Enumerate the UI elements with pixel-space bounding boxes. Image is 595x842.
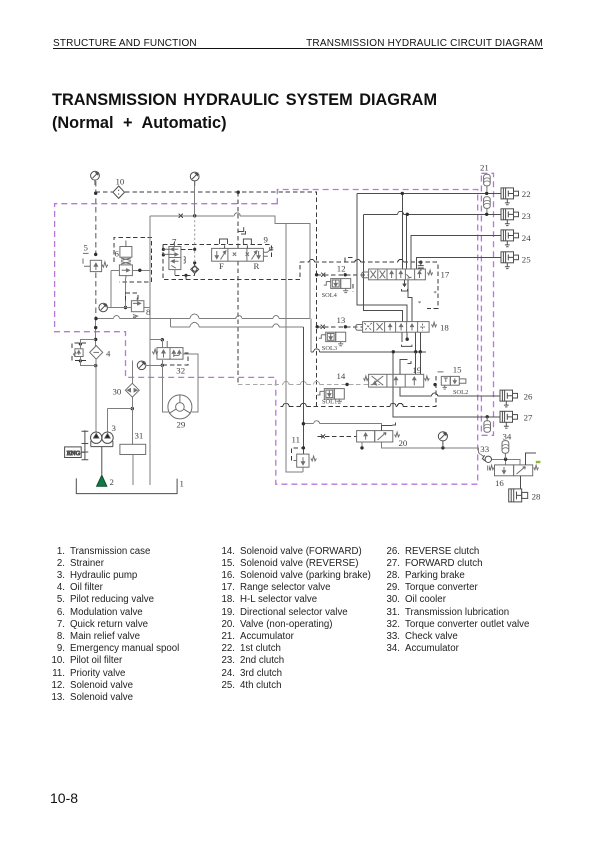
gauge G5 [438,432,447,448]
wire: link into pilot box [186,263,195,276]
svg-text:2: 2 [110,477,114,487]
pilot enclosure purple dashed loop [55,190,478,485]
legend column 1 [47,546,179,705]
wire: dashed return y406.3 [281,373,436,406]
legend column 3 [382,546,529,656]
svg-text:10: 10 [116,176,125,186]
wire: clutch27 run [393,352,500,417]
svg-text:20: 20 [399,438,408,448]
svg-text:6: 6 [115,248,120,258]
drain bracket under valve18 [402,345,412,347]
valve9 centering springs [220,239,252,248]
gauge G1 top-left [91,171,100,185]
svg-text:SOL2: SOL2 [453,389,468,396]
wire: gauge G3 to valve 8 [108,307,132,309]
svg-text:23: 23 [522,211,531,221]
wire: clutch25 run [417,257,501,269]
svg-text:SOL3: SOL3 [322,345,337,352]
wire: valve11 bottom loop [302,467,304,472]
check valve 33 [482,455,491,462]
valve20 pilot bracket [381,422,395,430]
parking brake 28 [509,489,528,502]
transmission lubrication 31 [120,444,146,454]
transmission case 1 [76,478,177,493]
svg-text:15: 15 [453,365,462,375]
wire: SOL3 header y351.8 [311,351,426,353]
quick return valve 7 [163,242,185,276]
REVERSE clutch 26 [500,390,518,407]
wire: SOL4 output dashed y274.8 [317,274,369,276]
wire: valve6 to relief line [126,216,151,308]
title line 2 [52,114,227,133]
wire: valve16 to brake [520,476,522,489]
svg-text:R: R [254,261,260,271]
svg-text:19: 19 [413,365,422,375]
torque converter 29 [168,395,192,419]
svg-text:7: 7 [172,237,177,247]
bumps dashed return [283,403,289,406]
svg-text:1: 1 [180,479,184,489]
svg-text:16: 16 [495,478,504,488]
wire: return riser x286 [286,224,303,472]
svg-text:24: 24 [522,233,531,243]
svg-text:18: 18 [440,323,449,333]
valve18 left cap link [356,325,363,331]
wire: bypass loop [80,339,95,365]
svg-text:33: 33 [480,444,489,454]
wire: SOL3 output dashed y326.8 [317,326,363,328]
orifice below valve17 pilot tap [418,262,424,271]
gauge G3 relief [99,303,108,312]
svg-text:F: F [219,261,224,271]
dashed box around bypass [72,343,86,360]
torque converter outlet valve 32 [152,341,183,359]
range selector valve 17 [369,269,433,280]
emergency manual spool 9 [212,247,273,261]
oil filter 4 [90,346,103,360]
title line 1 [52,91,437,110]
wire: pilot dashed box around valves 7,9 [163,245,300,280]
bumps rail1 [114,314,280,319]
node dots cluster [79,191,508,461]
wire: valve20 pilot dashed y436.3 [318,435,357,437]
svg-text:17: 17 [441,270,450,280]
svg-text:ENG: ENG [67,450,81,457]
dashed pilot box valve 8 [126,293,139,301]
wire: line to valve20 y423.7 [303,424,381,431]
svg-text:4: 4 [106,349,111,359]
accumulator 34 [502,441,509,460]
svg-text:SOL1: SOL1 [322,398,337,405]
svg-text:14: 14 [337,371,346,381]
wire: gauge G2 stem dashed [194,186,196,216]
svg-text:26: 26 [524,391,533,401]
header left [53,38,197,49]
wire: gauge G4 to TC drop [146,364,162,366]
wire: return rail2 y327 [171,319,304,327]
svg-text:34: 34 [503,432,512,442]
green mark [536,461,541,463]
svg-text:3: 3 [112,423,117,433]
svg-text:30: 30 [113,387,122,397]
accumulator 21 purple dashed box [481,173,493,435]
svg-text:22: 22 [522,189,531,199]
wire: SOL1 feed gray dashed y384.4 [238,383,380,385]
wire: valve18 drain stems [402,332,420,352]
svg-text:25: 25 [522,255,531,265]
legend column 2 [217,546,371,692]
solenoid valve 15 (SOL2) [438,372,466,389]
wire: lubrication drops [132,455,134,486]
wire: pump2 to cooler junction [108,409,133,433]
solenoid valve 16 (parking brake) [488,465,539,476]
main relief valve 8 [131,298,144,318]
wire: return rail1 y318.6 [96,318,310,320]
svg-text:28: 28 [532,491,541,501]
priority valve 11 [294,454,317,467]
svg-text:12: 12 [337,263,346,273]
valve17 drain stems [402,280,412,322]
bumps rail2 [190,323,279,328]
FORWARD clutch 27 [500,411,518,428]
wire: clutch23 run [363,214,501,321]
svg-text:32: 32 [176,366,185,376]
valve16 pilot bracket [526,453,536,465]
svg-text:SOL4: SOL4 [322,292,338,299]
header rule [53,48,543,49]
node: pilot gauge line (dashed, y192) [96,192,317,406]
jump bump main line over x238 [234,213,240,216]
dashed pilot box valve 11 [291,448,303,460]
filter4 bypass valve [73,349,83,357]
node: pilot tap to valve17 spring side [419,261,422,264]
oil cooler 30 [125,383,139,397]
modulation valve 6 [119,241,132,279]
dashed pilot box valve 32 [164,353,188,365]
svg-text:11: 11 [292,434,300,444]
wire: cooler drop x132.3 [131,361,133,445]
wire: valve8 output corner to rail2 [144,307,150,309]
svg-text:13: 13 [337,315,346,325]
svg-text:27: 27 [524,413,533,423]
wire: rail1 drop to SOL3 line x310.9 [310,319,312,352]
valve (non-operating) 20 [357,431,400,442]
pilot reducing valve 5 [83,253,108,271]
1st clutch 22 [501,188,519,205]
dashed box around valve17 assembly [345,258,353,292]
gauge G4 [137,361,146,370]
solenoid valve 14 (SOL1) [317,389,344,404]
3rd clutch 24 [501,230,519,247]
pilot oil filter 10 [113,186,125,198]
svg-text:29: 29 [177,420,186,430]
shuttle ball symbol below G2 stem [191,265,199,273]
directional selector valve 19 [364,374,430,387]
accumulator 21c [484,417,491,433]
wire: clutch22 run [357,193,501,321]
bumps on pilot line y262 [309,259,403,262]
engine ENG [65,430,89,460]
svg-text:21: 21 [480,163,489,173]
wire: valve32 verticals [150,308,198,486]
solenoid valve 12 (SOL4) [324,279,351,293]
wire: valve20 outlet to gauge/check line y448 [362,442,520,465]
wire: valve9 pilot dashed vertical x238.2 [237,192,239,384]
accumulator 21a [484,174,491,192]
svg-text:9: 9 [264,235,269,245]
wire: pilot line y262 to valve 17 end [300,262,438,308]
closed port mark SOL4 line [321,273,325,277]
wire: clutch26 run from valve19 [400,387,500,396]
svg-text:*: * [418,300,421,307]
4th clutch 25 [501,252,519,269]
closed port mark on main line [179,214,183,218]
closed port mark SOL3 line [321,325,325,329]
wire: valve6 output to supply riser [111,270,150,307]
2nd clutch 23 [501,209,519,226]
wire: pilot vertical x95.7 [95,181,97,319]
valve19 pilot bracket [400,359,411,374]
hydraulic pump 3 [91,432,114,475]
wire: supply riser x303.4 [302,327,304,454]
closed port mark valve20 pilot [321,434,325,438]
wire: main supply y215.8 [150,216,310,319]
accumulator 21b [484,197,491,213]
wire: filter4 vertical [95,359,97,432]
solenoid valve 13 (SOL3) [319,332,346,345]
gauge G2 [190,172,199,186]
header right [306,38,543,49]
valve17 left cap link [362,272,369,278]
wire: valve19 supply stems [416,352,421,375]
dashed pilot box around valve 6 [114,238,152,283]
wire: valve7 pilot dash to gauge stem [181,248,195,250]
svg-text:*: * [434,290,437,297]
page number [50,790,78,806]
wire: clutch24 run [411,235,501,269]
wire: valve7 drain dashes [175,275,186,279]
valve9 detent [238,227,245,234]
svg-text:5: 5 [84,243,89,253]
H-L selector valve 18 [363,322,437,333]
svg-text:31: 31 [135,431,144,441]
strainer 2 [97,475,107,486]
